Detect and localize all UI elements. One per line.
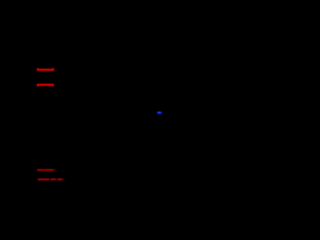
capacitor C1 bottom plate (red): [37, 84, 54, 87]
node net label (blue): [157, 112, 162, 114]
label text line 2 (dark red): [38, 179, 64, 181]
label text line 1 (dark red): [37, 169, 56, 171]
capacitor C1 top plate (red): [37, 68, 55, 71]
